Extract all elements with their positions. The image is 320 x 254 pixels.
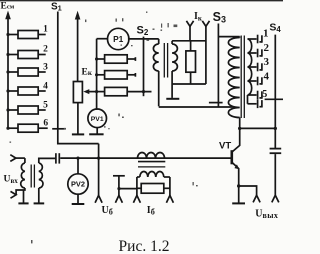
terminal Uвх bottom arrow [11,191,17,198]
label Iк [194,11,203,22]
svg-text:5: 5 [43,100,48,110]
svg-text:VT: VT [219,140,231,151]
resistor Rk2 (collector bank) [97,71,136,79]
svg-text:1: 1 [263,28,269,40]
svg-text:Iк: Iк [194,11,203,22]
svg-text:Uвых: Uвых [255,209,278,220]
ground (PV1) [89,133,103,135]
wire P1 left [97,38,109,40]
svg-text:1: 1 [43,24,48,34]
transformer T1 secondary [172,41,177,98]
inductor choke (base) [138,153,165,159]
svg-text:PV1: PV1 [91,116,104,123]
resistor Rk1 (collector bank) [97,55,136,63]
transformer Tin primary [16,158,25,195]
resistor 4 (bias bank) [6,87,45,95]
ground (Ек branch) [72,133,84,135]
potentiometer Ек [73,82,96,103]
svg-text:4: 4 [263,70,269,82]
transistor VT label [219,140,231,151]
node Есм label [1,2,15,12]
switch S3 line [209,24,223,108]
switch S4 label [269,22,281,35]
terminal Uб2 with bar [113,176,125,203]
capacitor C coupling [56,153,59,163]
switch S3 label [213,10,226,25]
voltmeter PV1 [88,109,107,134]
svg-text:S3: S3 [213,10,226,25]
terminal Iб right arrow [166,195,173,202]
transformer T2 primary (output) [228,37,239,129]
current transformer secondary coil [137,172,170,196]
svg-text:Ек: Ек [82,68,93,78]
label 3 [43,62,48,72]
label 1 [43,24,48,34]
svg-text:Iб: Iб [147,205,155,216]
svg-text:Uвх: Uвх [4,174,19,185]
terminal Iб left arrow [133,195,140,202]
resistor 3 (bias bank) [6,68,45,76]
label 6 [43,118,48,128]
transformer T2 secondary with taps [248,39,252,104]
tap 5 [248,91,262,100]
label Iб [147,205,155,216]
node Ек label [82,68,93,78]
resistor 2 (bias bank) [6,51,45,59]
svg-text:3: 3 [43,62,48,72]
label Uб [102,205,113,216]
label 5 [43,100,48,110]
resistor shunt Rx [186,41,196,84]
terminal Iк right arrow [202,21,209,84]
resistor 6 (bias bank) [6,124,47,132]
wire Ек supply line with arrow [75,11,81,82]
terminal Uвых left arrow [253,195,260,202]
wire base line [60,157,230,160]
svg-text:Рис. 1.2: Рис. 1.2 [119,238,170,254]
scan noise specks [10,12,198,244]
label Uвых [255,209,278,220]
ground (PV2) [72,203,85,205]
ground (input secondary) [34,202,45,204]
svg-text:3: 3 [263,56,269,68]
label 2 [43,44,48,54]
svg-text:2: 2 [263,42,269,54]
transistor VT [232,128,241,202]
wire pot to ground [77,103,79,134]
svg-text:2: 2 [43,44,48,54]
op meter P1 [108,28,129,49]
terminal Uвых right arrow [272,195,279,202]
tap 6 [248,100,262,109]
switch S2 line [143,37,145,97]
wire capacitor to output terminal [274,154,276,195]
label Uвх [4,174,19,185]
svg-text:4: 4 [43,81,48,91]
caption Рис. 1.2 [119,238,170,254]
switch S1 label [51,1,62,12]
ground (input primary) [18,190,28,203]
svg-text:P1: P1 [113,34,124,44]
wire collector supply rail [159,106,233,108]
voltmeter PV2 [68,158,88,203]
choke core lines [138,162,165,167]
terminal Uб1 arrow [95,144,102,203]
ground bar (T1 secondary) [166,98,179,100]
wire Есм supply rail with arrow [5,11,11,129]
switch S2 label [137,25,149,38]
transformer T1 core [164,43,167,78]
svg-text:Есм: Есм [1,2,15,12]
label 4 [43,81,48,91]
svg-text:S4: S4 [269,22,281,35]
svg-text:S2: S2 [137,25,149,38]
tap 4 [248,77,262,86]
wire emitter to output terminal [239,186,257,195]
wire P1 feed vertical [95,39,98,110]
wire Ix block bottom rail [172,83,206,85]
resistor 1 (bias bank) [6,31,45,39]
capacitor C out plates [270,149,282,154]
tap labels 1-5 [262,28,269,101]
switch S4 common line crossing [265,98,283,100]
transformer Tin core [31,165,34,188]
resistor Rk3 (collector bank) [97,87,152,95]
transformer T1 primary (driver) [153,39,158,106]
svg-text:6: 6 [43,118,48,128]
wire Ix block top rail [172,40,206,42]
ground (emitter) [232,202,245,204]
tap 1 [248,35,262,44]
svg-text:PV2: PV2 [71,180,85,189]
terminal Iк left arrow [186,21,193,41]
switch S4 line down to capacitor [274,35,277,148]
wire T2 primary top [218,36,239,38]
transformer T2 core [241,36,244,119]
svg-text:Uб: Uб [102,205,113,216]
scan top border [0,0,283,2]
svg-text:S1: S1 [51,1,62,12]
transformer Tin secondary [39,158,56,202]
tap 3 [248,63,262,72]
resistor Rб shunt [137,184,170,194]
resistor 5 (bias bank) [6,106,45,114]
switch S1 common bus [52,12,98,144]
terminal Uвх top arrow [10,155,25,162]
wire P1 right to transformer [128,38,159,40]
wire collector node rail [238,127,275,130]
wire Uб2 to shunt loop [117,187,136,190]
tap 2 [248,49,262,58]
